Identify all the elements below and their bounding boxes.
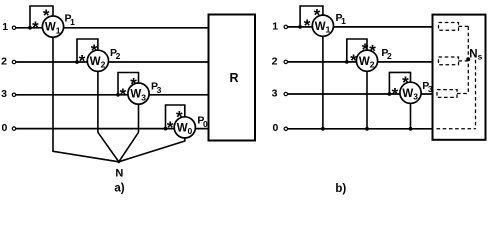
polarity asterisk (voltage coil) W3 (130, 74, 137, 93)
svg-text:*: * (79, 52, 86, 71)
svg-text:0: 0 (272, 122, 278, 134)
terminal label 0 (diagram a) (1, 122, 7, 134)
svg-text:3: 3 (1, 88, 7, 100)
svg-text:R: R (229, 71, 238, 85)
wire: W2b voltage coil to line 0 (366, 71, 368, 129)
svg-text:2: 2 (116, 51, 121, 61)
wire: line 2 to receiver R (16, 61, 209, 63)
input terminal 0 (diagram b) (284, 127, 287, 130)
svg-text:1: 1 (272, 20, 278, 32)
label P1 (W1b) (336, 12, 347, 26)
input terminal 3 (diagram b) (284, 92, 287, 95)
wattmeter W1b (312, 15, 333, 36)
star resistor Z2 (dashed) (439, 57, 459, 65)
star resistor Z1 (dashed) (439, 23, 459, 31)
svg-text:*: * (167, 118, 174, 137)
terminal label 1 (diagram b) (272, 20, 278, 32)
wire: neutral inside load box (dashed) (437, 128, 476, 130)
voltage-coil loop wire W2 (77, 39, 98, 62)
wire: Z3 to star point (dashed) (457, 93, 468, 95)
wire: line 0 to load box (diagram b) (288, 128, 433, 130)
polarity asterisk (voltage coil) W1b (314, 5, 321, 24)
wire: Ns to neutral (dashed, vertical) (475, 60, 477, 129)
svg-text:N: N (115, 167, 123, 179)
voltage-coil loop wire W1 (30, 6, 53, 28)
polarity asterisk (voltage coil) W0 (176, 107, 183, 126)
svg-text:*: * (304, 16, 311, 35)
wire: Z1 to star point (dashed) (459, 25, 469, 27)
input terminal 1 (diagram b) (284, 25, 287, 28)
junction dot W2b on line 0 (365, 127, 369, 131)
input terminal 2 (diagram b) (284, 60, 287, 63)
star resistor Z3 (dashed) (437, 90, 457, 98)
voltage-coil loop wire W1b (300, 6, 323, 27)
wire: W0 voltage coil to node N (119, 138, 185, 162)
wire: W3 voltage coil to node N (119, 104, 139, 162)
wire: line 1 to load box (diagram b) (288, 26, 433, 28)
input terminal 1 (diagram a) (12, 26, 15, 29)
junction dot W3b (388, 92, 392, 96)
input terminal 0 (diagram a) (12, 127, 15, 130)
junction dot W1 (28, 26, 32, 30)
terminal label 1 (diagram a) (2, 21, 8, 33)
svg-text:b): b) (335, 183, 346, 195)
terminal label 3 (diagram b) (272, 87, 278, 99)
junction dot W0 (164, 127, 168, 131)
label P3 (W3b) (422, 80, 433, 94)
junction dot W3b on line 0 (409, 127, 413, 131)
svg-text:*: * (32, 18, 39, 37)
wire: W1b voltage coil to line 0 (322, 36, 324, 129)
junction dot W3 (116, 93, 120, 97)
polarity asterisk (current coil) W3b (392, 84, 399, 103)
svg-text:1: 1 (2, 21, 8, 33)
receiver (load) R (209, 15, 256, 141)
voltage-coil loop wire W2b (347, 39, 367, 62)
svg-text:1: 1 (70, 17, 75, 27)
label P2 (W2b) (381, 47, 392, 61)
terminal label 0 (diagram b) (272, 122, 278, 134)
polarity asterisk (current coil) W2b (350, 51, 357, 70)
wattmeter W2 (87, 50, 108, 71)
svg-text:2: 2 (387, 51, 392, 61)
svg-text:a): a) (114, 183, 124, 195)
polarity asterisk (voltage coil) W2 (91, 41, 98, 60)
voltage-coil loop wire W3 (118, 73, 139, 95)
wire: W3b voltage coil to line 0 (410, 103, 412, 129)
junction dot W1b (298, 25, 302, 29)
wire: Z2 to star point (dashed) (459, 60, 469, 62)
svg-text:3: 3 (272, 87, 278, 99)
label P1 (W1) (65, 13, 76, 27)
wattmeter W3 (128, 83, 149, 104)
svg-text:2: 2 (1, 55, 7, 67)
terminal label 3 (diagram a) (1, 88, 7, 100)
input terminal 2 (diagram a) (12, 60, 15, 63)
wire: W1 voltage coil to node N (53, 37, 119, 162)
wire: W2 voltage coil to node N (98, 71, 119, 162)
polarity asterisk (current coil) W1 (32, 18, 39, 37)
label P0 (W0) (197, 115, 208, 129)
node Ns (466, 49, 482, 62)
voltage-coil loop wire W0 (166, 105, 185, 129)
input terminal 3 (diagram a) (12, 93, 15, 96)
polarity asterisk (outside coil loop) W2b (369, 42, 376, 61)
junction dot W2 (75, 60, 79, 64)
wire: star point vertical (dashed) (467, 26, 469, 93)
caption a) (114, 183, 124, 195)
svg-text:0: 0 (1, 122, 7, 134)
polarity asterisk (current coil) W3 (120, 85, 127, 104)
polarity asterisk (current coil) W0 (167, 118, 174, 137)
svg-text:1: 1 (341, 16, 346, 26)
wire: line 3 to load box (diagram b) (288, 93, 433, 95)
svg-text:*: * (120, 85, 127, 104)
node N (115, 160, 123, 179)
wire: line 0 to receiver R (16, 128, 209, 130)
load box (diagram b) (433, 15, 486, 140)
junction dot W2b (345, 60, 349, 64)
wire: line 1 to receiver R (16, 27, 209, 29)
junction dot W1b on line 0 (321, 127, 325, 131)
wattmeter W3b (400, 82, 421, 103)
svg-text:s: s (478, 52, 483, 62)
polarity asterisk (voltage coil) W3b (402, 73, 409, 92)
wire: line 2 to load box (diagram b) (288, 61, 433, 63)
polarity asterisk (current coil) W2 (79, 52, 86, 71)
svg-text:2: 2 (272, 55, 278, 67)
caption b) (335, 183, 346, 195)
wattmeter W1 (42, 16, 63, 37)
polarity asterisk (current coil) W1b (304, 16, 311, 35)
polarity asterisk (voltage coil) W1 (43, 6, 50, 25)
label P3 (W3) (151, 81, 162, 95)
wattmeter W2b (356, 50, 377, 71)
wattmeter W0 (174, 117, 195, 138)
wire: line 3 to receiver R (16, 94, 209, 96)
voltage-coil loop wire W3b (389, 72, 410, 94)
svg-text:N: N (469, 49, 477, 61)
terminal label 2 (diagram b) (272, 55, 278, 67)
svg-text:0: 0 (203, 119, 208, 129)
polarity asterisk (voltage coil) W2b (362, 40, 369, 59)
label P2 (W2) (110, 47, 121, 61)
svg-text:3: 3 (157, 85, 162, 95)
terminal label 2 (diagram a) (1, 55, 7, 67)
svg-text:*: * (392, 84, 399, 103)
